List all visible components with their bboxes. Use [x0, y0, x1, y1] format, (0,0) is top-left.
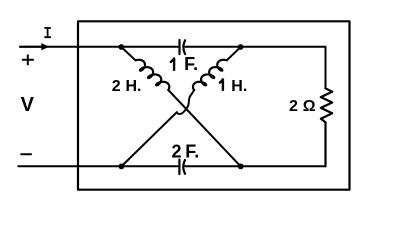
svg-text:H.: H.: [231, 78, 247, 95]
svg-text:F.: F.: [185, 142, 199, 162]
svg-text:H.: H.: [126, 78, 142, 95]
svg-text:2: 2: [289, 98, 298, 115]
svg-text:2: 2: [172, 142, 182, 162]
svg-text:2: 2: [112, 78, 121, 95]
svg-text:F.: F.: [184, 54, 198, 74]
svg-text:V: V: [21, 94, 35, 116]
svg-text:Ω: Ω: [303, 98, 316, 115]
